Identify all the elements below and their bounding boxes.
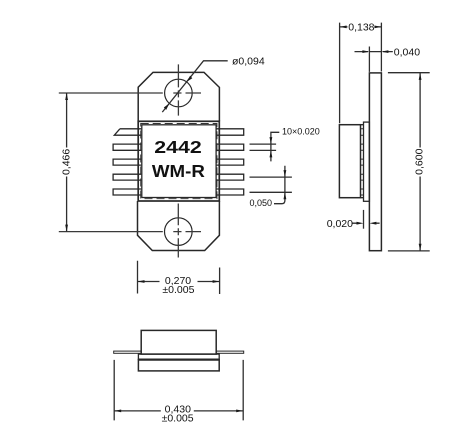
svg-text:0,020: 0,020 xyxy=(327,218,353,230)
svg-text:±0.005: ±0.005 xyxy=(162,413,194,425)
svg-text:0,040: 0,040 xyxy=(394,46,420,58)
svg-text:0,138: 0,138 xyxy=(348,22,374,34)
svg-text:10×0.020: 10×0.020 xyxy=(282,127,320,137)
svg-text:0,600: 0,600 xyxy=(414,148,426,174)
svg-text:2442: 2442 xyxy=(154,137,202,157)
svg-text:0,050: 0,050 xyxy=(250,198,273,208)
svg-text:ø0,094: ø0,094 xyxy=(232,55,265,67)
svg-text:0,466: 0,466 xyxy=(61,149,73,175)
svg-text:±0.005: ±0.005 xyxy=(162,284,194,296)
svg-text:WM-R: WM-R xyxy=(152,161,205,181)
